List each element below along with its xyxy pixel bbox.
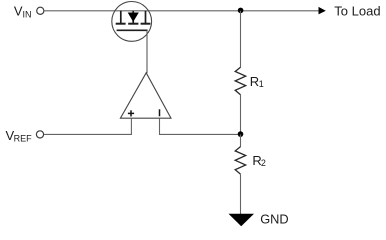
svg-text:REF: REF: [14, 134, 33, 144]
node B junction: [238, 131, 244, 137]
svg-text:2: 2: [261, 158, 266, 168]
node A junction: [238, 8, 244, 14]
wire: VIN terminal to node A (through MOSFET source/drain): [44, 10, 240, 12]
resistor R1: [235, 67, 246, 95]
ground: [229, 214, 255, 226]
terminal VIN: [37, 7, 44, 14]
transistor Q1 (P-channel MOSFET pass element): [112, 2, 152, 42]
svg-text:To Load: To Load: [334, 4, 380, 19]
svg-text:GND: GND: [260, 211, 288, 226]
wire: R1 to node B: [240, 95, 242, 135]
wire: node A to R1: [240, 11, 242, 68]
wire: MOSFET gate to op-amp output: [146, 30, 148, 73]
op-amp U1: [120, 73, 171, 118]
resistor R2: [235, 147, 246, 175]
label VIN: [14, 4, 32, 20]
label VREF: [6, 128, 33, 143]
svg-text:1: 1: [259, 79, 264, 89]
wire: R2 to ground: [240, 174, 242, 214]
wire: node A to load arrow: [241, 10, 320, 12]
wire: op-amp inverting input to node B: [160, 118, 241, 134]
label R2: [252, 153, 266, 168]
svg-text:IN: IN: [23, 10, 32, 20]
label R1: [250, 74, 264, 89]
load arrowhead: [319, 7, 326, 14]
wire: node B to R2: [240, 134, 242, 146]
terminal VREF: [36, 131, 43, 138]
wire: VREF terminal to op-amp noninverting input: [44, 118, 131, 134]
